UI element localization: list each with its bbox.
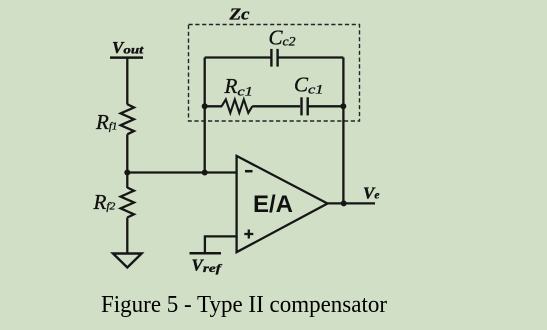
wire Zc right vertical (to output node): [342, 58, 344, 204]
svg-text:Figure 5 - Type II compensator: Figure 5 - Type II compensator: [101, 291, 387, 318]
svg-text:E/A: E/A: [253, 191, 293, 218]
junction Zc lower-left: [202, 103, 208, 109]
wire Vout to Rf1: [126, 58, 128, 105]
capacitor Cc2: [271, 49, 277, 67]
pin minus (inverting input mark): [245, 170, 253, 173]
resistor Rf2: [121, 188, 134, 218]
wire output: [328, 202, 376, 204]
junction node A (feedback divider tap): [124, 170, 130, 176]
junction output node: [341, 200, 347, 206]
wire top branch left: [205, 56, 271, 58]
wire Rc1 to Cc1: [252, 105, 300, 107]
pin plus (non-inverting input mark): [244, 230, 253, 239]
wire Rf2 to ground: [126, 218, 128, 254]
wire top branch right: [278, 56, 344, 58]
ground: [113, 254, 142, 268]
wire lower branch to Rc1: [205, 105, 222, 107]
Zc dashed boundary box: [189, 25, 360, 122]
svg-text:Zc: Zc: [228, 5, 250, 24]
capacitor Cc1: [302, 97, 308, 115]
junction Zc lower-right: [340, 103, 346, 109]
wire Cc1 to right vertical: [308, 105, 344, 107]
wire node A to Rf2: [126, 173, 128, 189]
op-amp U1 E/A: [237, 156, 328, 252]
wire node A to inverting input: [127, 171, 236, 173]
node Vref terminal bar: [190, 252, 222, 255]
wire Zc left vertical (top branch to inverting wire): [204, 58, 206, 173]
junction node B (Zc bottom tap on input wire): [202, 170, 208, 176]
resistor Rc1: [222, 99, 253, 113]
wire non-inverting input: [205, 236, 237, 253]
resistor Rf1: [121, 104, 134, 134]
node Vout terminal bar: [110, 56, 143, 59]
wire Rf1 to node A: [126, 134, 128, 172]
